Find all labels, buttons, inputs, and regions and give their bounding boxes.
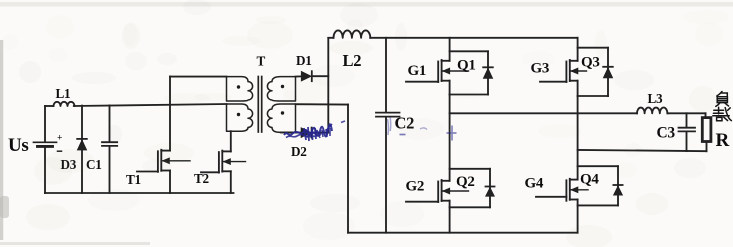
transformer core bbox=[258, 77, 261, 133]
transformer primary polarity dot top bbox=[237, 85, 240, 88]
transistor Q2 (MOSFET) bbox=[406, 95, 469, 233]
svg-text:Q3: Q3 bbox=[581, 55, 600, 71]
transformer secondary polarity dot top bbox=[281, 85, 284, 88]
svg-text:C3: C3 bbox=[657, 125, 676, 142]
svg-text:G2: G2 bbox=[406, 179, 425, 195]
svg-text:T: T bbox=[257, 54, 266, 69]
body diode branch of Q3 bbox=[578, 48, 608, 96]
capacitor C2 bbox=[376, 38, 400, 233]
wire: rectifier junction vertical bbox=[327, 38, 329, 133]
wire: after L3 to load bbox=[667, 113, 705, 117]
capacitor C3 bbox=[679, 113, 696, 151]
wire: left bottom rail bbox=[45, 192, 234, 194]
transformer primary winding group 2 bbox=[227, 104, 253, 131]
svg-text:D2: D2 bbox=[291, 144, 307, 159]
inductor L3 bbox=[637, 107, 667, 113]
transformer secondary polarity dot bottom bbox=[281, 111, 284, 114]
wire: right bottom rail bbox=[348, 232, 578, 234]
body diode branch of Q1 bbox=[450, 51, 488, 94]
transformer secondary winding group 1 bbox=[267, 77, 295, 101]
svg-text:L3: L3 bbox=[648, 91, 663, 106]
transistor Q1 (MOSFET) bbox=[406, 38, 469, 95]
svg-text:Q1: Q1 bbox=[457, 58, 476, 74]
wire: D2 to junction bbox=[312, 132, 328, 134]
transistor Q4 (MOSFET) bbox=[536, 96, 588, 233]
transformer secondary winding group 2 bbox=[267, 104, 295, 132]
wire: bridge output line B bbox=[578, 150, 707, 151]
inductor L1 bbox=[45, 102, 75, 106]
transformer primary winding group 1 bbox=[227, 77, 253, 101]
diode D(Q1) bbox=[483, 67, 493, 78]
body diode branch of Q2 bbox=[450, 169, 490, 208]
label 负载 (load) bbox=[713, 92, 732, 121]
svg-text:T1: T1 bbox=[126, 172, 141, 187]
transistor T1 (MOSFET) bbox=[137, 77, 190, 194]
wire: D1 to junction bbox=[313, 75, 329, 77]
transformer primary polarity dot bottom bbox=[237, 113, 240, 116]
svg-text:G4: G4 bbox=[525, 176, 544, 192]
body diode branch of Q4 bbox=[578, 166, 618, 205]
svg-text:Q2: Q2 bbox=[456, 174, 475, 190]
diode D(Q3) bbox=[603, 67, 613, 78]
svg-text:Q4: Q4 bbox=[580, 172, 599, 188]
svg-text:D1: D1 bbox=[296, 53, 312, 68]
diode D(Q2) bbox=[486, 187, 495, 197]
svg-text:R: R bbox=[716, 130, 730, 151]
scan edge shading bbox=[0, 40, 3, 240]
wire: secondary top to D1 bbox=[296, 75, 302, 77]
wire: primary top feed bbox=[170, 76, 227, 78]
watermark scribble (blue) bbox=[284, 117, 457, 141]
svg-text:T2: T2 bbox=[194, 171, 209, 186]
wire: bridge output line A bbox=[450, 112, 637, 114]
svg-text:L1: L1 bbox=[56, 86, 71, 101]
svg-text:+: + bbox=[57, 134, 62, 144]
svg-text:G1: G1 bbox=[408, 63, 427, 79]
wire: top rail left bbox=[74, 104, 227, 106]
transistor T2 (MOSFET) bbox=[201, 131, 246, 193]
battery Us bbox=[34, 106, 63, 193]
diode D1 bbox=[301, 71, 312, 81]
capacitor C1 bbox=[102, 105, 117, 193]
load resistor R box bbox=[702, 118, 711, 152]
inductor L2 bbox=[328, 30, 370, 37]
wire: secondary center tap return bbox=[296, 104, 349, 233]
diode D(Q4) bbox=[613, 185, 622, 195]
wire: top rail bbox=[370, 37, 577, 39]
transistor Q3 (MOSFET) bbox=[540, 38, 587, 96]
svg-text:Us: Us bbox=[8, 135, 29, 156]
diode D3 bbox=[77, 106, 87, 193]
wire: secondary bottom to D2 bbox=[281, 131, 301, 133]
diode D2 bbox=[301, 128, 312, 138]
